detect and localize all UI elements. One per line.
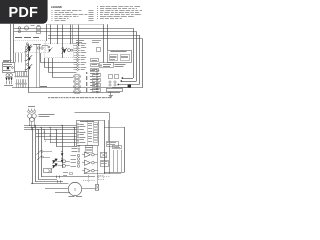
aux box column <box>91 59 101 92</box>
inner divider <box>108 120 110 141</box>
riser end terminator 1 <box>122 77 123 78</box>
ladder rail R4 <box>41 127 43 170</box>
mid drop V13 <box>74 127 76 146</box>
fuse circles <box>28 110 30 112</box>
legend right column items <box>97 6 142 19</box>
panel right minis <box>88 123 98 143</box>
lower row block <box>72 145 93 152</box>
big terminal circles <box>77 154 80 167</box>
amplifier A1 <box>85 152 91 157</box>
rail turn R2 <box>35 170 37 182</box>
bus B <box>24 127 77 129</box>
resistor feed <box>97 174 99 185</box>
overload contact OC1 <box>62 151 63 152</box>
contact K1 inside DB1 <box>26 43 28 45</box>
stacked contact group: vertical link <box>28 44 30 93</box>
tachometer flat box <box>107 89 123 92</box>
amplifier A3 <box>85 168 91 173</box>
panel left terminals <box>77 124 85 144</box>
ladder rail R2 <box>35 125 37 170</box>
governor contact K3 <box>48 46 50 48</box>
long vertical VL1 <box>36 44 38 88</box>
chevron contact CH2 <box>52 164 58 168</box>
stair wire S2 <box>44 58 46 67</box>
dashed note box N1 <box>100 63 114 68</box>
lamp inside DB1 <box>37 47 39 49</box>
dashed enclosure DB1 <box>14 41 46 53</box>
bus label <box>40 85 47 88</box>
svg-text:PDF: PDF <box>8 5 38 21</box>
bottom link <box>84 173 121 175</box>
bus junction dots <box>29 125 74 130</box>
label block right-top <box>92 39 101 42</box>
breaker break 2 <box>57 180 59 183</box>
transformer T1 windings <box>6 74 9 77</box>
vertical drop V7b <box>72 25 74 44</box>
vertical feeder V2 <box>13 24 15 63</box>
lower label rows <box>71 155 77 167</box>
door contact D3 <box>27 63 29 65</box>
brake coil box <box>101 161 109 167</box>
door contact D1 <box>27 45 29 47</box>
container top stub <box>99 120 104 122</box>
PS output lamp <box>12 67 14 69</box>
svg-text:LEGEND: LEGEND <box>51 5 62 9</box>
note text right <box>115 63 126 66</box>
vertical drop V8 <box>78 25 80 46</box>
junction blob near risers <box>128 85 131 88</box>
fuse box F1 <box>37 27 41 30</box>
coil CL2 <box>63 164 66 167</box>
door contact D2 <box>27 54 29 56</box>
fuse box F2 <box>37 31 41 34</box>
text specks DB1 <box>33 43 41 46</box>
panel divider <box>87 120 89 145</box>
mid drop V11a <box>44 130 46 140</box>
text specks DB2 <box>42 44 48 47</box>
vertical drop V5 <box>57 25 59 44</box>
motor label <box>69 195 75 198</box>
outer enclosure right edge <box>109 113 111 174</box>
relay coil M <box>24 26 28 30</box>
field rheostat box <box>101 153 107 158</box>
terminal box TB2 <box>113 146 122 149</box>
PDF badge <box>0 0 48 24</box>
container top rail <box>104 127 125 129</box>
rung 3 <box>44 139 77 141</box>
rung 4 <box>50 142 77 144</box>
chevron contact CH1 <box>52 159 58 163</box>
rung 1 <box>36 133 77 135</box>
dashed minibox <box>99 176 104 180</box>
overload contact OC2 <box>62 158 63 159</box>
label above strip <box>76 39 84 42</box>
vertical drop V6 <box>62 25 64 58</box>
terminal comb row 1 <box>15 72 28 78</box>
label row under bus <box>15 37 22 38</box>
long bus across bottom <box>12 87 131 89</box>
main transformer T2 <box>28 114 33 119</box>
outer enclosure top <box>75 112 110 114</box>
small component under labels <box>97 48 101 52</box>
rail turn R1 to motor <box>32 170 34 184</box>
riser end terminator 3 <box>118 84 119 85</box>
stub S5 <box>43 151 52 153</box>
mid components row <box>109 81 111 83</box>
car panel box <box>77 121 99 146</box>
riser V14 <box>97 146 99 174</box>
riser V17 <box>121 150 123 172</box>
rung 2 <box>36 136 77 138</box>
riser V15 <box>113 150 115 172</box>
overspeed contact K2 <box>62 48 64 50</box>
dashed link horiz <box>83 180 95 182</box>
PS label above <box>3 59 12 62</box>
hoist motor M1 <box>68 182 81 195</box>
legend left column items <box>52 10 94 21</box>
rail turn R3 <box>38 170 40 179</box>
dotted continuation <box>97 176 110 178</box>
dashed link vert <box>88 175 90 183</box>
riser V16 <box>117 150 119 172</box>
ladder contact LC2 <box>42 156 44 158</box>
figure caption <box>48 96 111 99</box>
compensator label <box>39 113 55 116</box>
relay pair boxes <box>109 75 113 79</box>
vertical drop V3 <box>46 24 48 41</box>
motor out wire <box>82 188 96 190</box>
power supply box PS1 <box>3 63 15 73</box>
selector oval pairs <box>73 74 80 94</box>
relay box RB1 <box>107 142 119 147</box>
rung 5 <box>56 146 77 148</box>
pilot lamp P1 <box>18 27 21 30</box>
wire bus L4 with right riser <box>48 38 143 40</box>
transformer arrows <box>5 77 7 81</box>
ladder rail R1 <box>32 127 34 170</box>
coil CL1 <box>63 160 66 163</box>
motor feed 3 <box>55 192 70 194</box>
bus A <box>24 125 77 127</box>
mid drop V11b <box>50 127 52 142</box>
vertical drop V9 <box>103 24 105 63</box>
terminal strip TS1 <box>74 42 87 70</box>
wire bus L1 with right riser <box>14 28 133 30</box>
breaker break 1 <box>56 175 58 178</box>
OL labels above motor <box>63 171 68 174</box>
speed controller box U1 <box>108 51 132 63</box>
mid drop V12 <box>62 125 64 168</box>
amplifier A2 <box>85 160 91 165</box>
rail turn R4 to brake line <box>41 170 43 177</box>
motor feed 2 <box>45 188 68 190</box>
long vertical VL2 <box>39 44 41 88</box>
vertical drop V7 <box>70 25 72 44</box>
brake resistor <box>96 185 99 191</box>
bus C <box>24 129 77 131</box>
ground symbol G1 <box>110 92 112 95</box>
riser end terminator 2 <box>121 80 122 81</box>
wire bus L3 with right riser <box>48 35 140 37</box>
stair wire S4 <box>52 58 54 77</box>
container bottom <box>104 172 125 174</box>
rectifier block <box>7 67 9 69</box>
vertical drop V10 <box>107 24 109 50</box>
terminal comb row 2 <box>16 79 27 88</box>
rotated selector label <box>86 72 87 92</box>
vertical drop V4 <box>50 25 52 44</box>
supply label <box>28 105 35 108</box>
outer container left edge <box>104 120 106 174</box>
wire top bus L0 <box>48 24 104 26</box>
spine second line <box>25 46 27 72</box>
second long bus <box>29 92 111 94</box>
stub S6 <box>44 157 51 159</box>
transformer label <box>4 84 13 87</box>
DB1 to PS feeders <box>15 53 17 63</box>
dashed enclosure DB2 <box>45 44 74 58</box>
ladder rail R3 <box>38 130 40 171</box>
voltage labels above bus <box>31 24 35 27</box>
contactor box with X <box>44 169 52 173</box>
wire bus L2 with right riser <box>14 31 137 33</box>
motor feed dot <box>31 183 32 184</box>
container right edge <box>124 127 126 172</box>
ladder contact LC1 <box>41 151 43 153</box>
stair wire S1 <box>40 53 42 62</box>
pilot lamp P2 <box>18 30 20 32</box>
right terminal rows <box>90 70 100 93</box>
mid drop V11 <box>56 130 58 147</box>
coil E1 <box>68 49 71 52</box>
vertical feeder V1 <box>10 24 12 63</box>
link wires <box>58 161 63 163</box>
stair wire S3 <box>48 58 50 72</box>
transformer drops <box>29 118 31 125</box>
